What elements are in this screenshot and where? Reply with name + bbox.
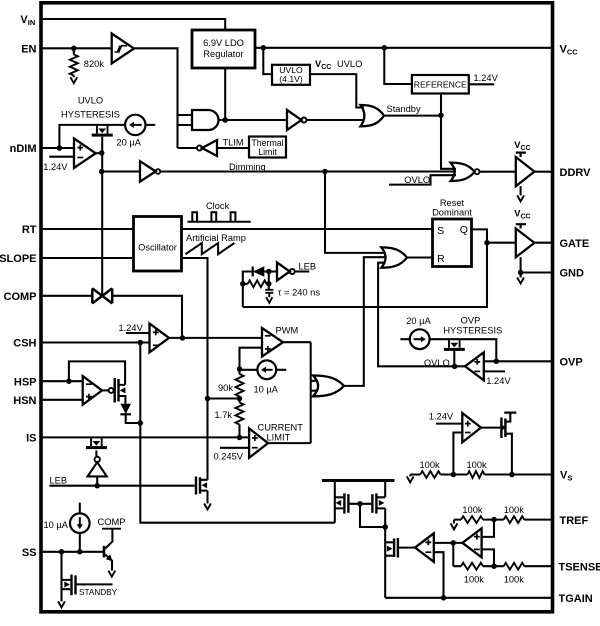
svg-text:1.24V: 1.24V <box>429 411 454 421</box>
svg-text:TSENSE: TSENSE <box>559 561 600 573</box>
svg-text:100k: 100k <box>467 460 488 470</box>
svg-text:HYSTERESIS: HYSTERESIS <box>61 110 120 120</box>
svg-text:HYSTERESIS: HYSTERESIS <box>443 326 502 336</box>
svg-text:1.24V: 1.24V <box>119 323 144 333</box>
svg-text:CURRENT: CURRENT <box>258 422 304 432</box>
svg-text:820k: 820k <box>84 59 105 69</box>
svg-text:TREF: TREF <box>560 515 589 527</box>
svg-text:IS: IS <box>26 433 36 445</box>
svg-text:τ = 240 ns: τ = 240 ns <box>278 287 321 297</box>
svg-text:Reset: Reset <box>440 198 465 208</box>
svg-text:STANDBY: STANDBY <box>79 588 118 597</box>
svg-text:S: S <box>437 225 444 237</box>
svg-text:100k: 100k <box>420 460 441 470</box>
svg-text:100k: 100k <box>504 574 525 584</box>
svg-text:Standby: Standby <box>387 104 421 114</box>
svg-text:OVP: OVP <box>560 357 583 369</box>
svg-text:1.7k: 1.7k <box>215 410 233 420</box>
svg-text:100k: 100k <box>504 505 525 515</box>
svg-text:100k: 100k <box>464 574 485 584</box>
svg-text:GATE: GATE <box>560 238 590 250</box>
svg-text:Oscillator: Oscillator <box>138 242 177 252</box>
svg-text:UVLO: UVLO <box>78 96 103 106</box>
svg-text:UVLO: UVLO <box>337 59 362 69</box>
svg-text:0.245V: 0.245V <box>214 451 244 461</box>
svg-text:100k: 100k <box>462 505 483 515</box>
svg-text:20 µA: 20 µA <box>406 316 431 326</box>
svg-text:10 µA: 10 µA <box>44 520 69 530</box>
svg-text:Limit: Limit <box>258 147 277 157</box>
svg-text:PWM: PWM <box>276 325 299 335</box>
svg-text:nDIM: nDIM <box>10 143 37 155</box>
svg-text:EN: EN <box>21 44 36 56</box>
svg-text:1.24V: 1.24V <box>43 162 68 172</box>
svg-text:R: R <box>437 253 445 265</box>
svg-text:Clock: Clock <box>206 201 230 211</box>
svg-text:OVP: OVP <box>461 316 481 326</box>
svg-text:TGAIN: TGAIN <box>559 593 593 605</box>
svg-text:Q: Q <box>460 224 468 236</box>
svg-text:HSP: HSP <box>14 376 37 388</box>
svg-text:Dominant: Dominant <box>432 208 472 218</box>
svg-text:RT: RT <box>22 224 37 236</box>
svg-text:REFERENCE: REFERENCE <box>414 80 467 90</box>
svg-text:OVLO: OVLO <box>424 358 450 368</box>
svg-text:20 µA: 20 µA <box>117 138 142 148</box>
svg-text:90k: 90k <box>218 383 233 393</box>
svg-text:SLOPE: SLOPE <box>0 253 37 265</box>
svg-text:10 µA: 10 µA <box>254 384 279 394</box>
svg-text:LIMIT: LIMIT <box>267 433 291 443</box>
svg-text:COMP: COMP <box>4 291 37 303</box>
svg-text:TLIM: TLIM <box>223 138 244 148</box>
svg-text:SS: SS <box>22 547 37 559</box>
svg-text:(4.1V): (4.1V) <box>279 74 303 84</box>
svg-text:Regulator: Regulator <box>203 49 243 59</box>
svg-text:GND: GND <box>560 268 585 280</box>
svg-text:6.9V LDO: 6.9V LDO <box>203 38 244 48</box>
svg-text:CSH: CSH <box>13 338 36 350</box>
svg-text:COMP: COMP <box>98 517 126 527</box>
svg-text:Artificial Ramp: Artificial Ramp <box>186 233 246 243</box>
svg-text:HSN: HSN <box>13 395 36 407</box>
svg-text:OVLO: OVLO <box>404 175 430 185</box>
svg-text:1.24V: 1.24V <box>474 73 499 83</box>
svg-text:DDRV: DDRV <box>560 167 592 179</box>
svg-text:LEB: LEB <box>299 261 317 271</box>
svg-text:1.24V: 1.24V <box>486 376 511 386</box>
svg-text:Dimming: Dimming <box>229 162 266 172</box>
svg-text:LEB: LEB <box>50 476 68 486</box>
